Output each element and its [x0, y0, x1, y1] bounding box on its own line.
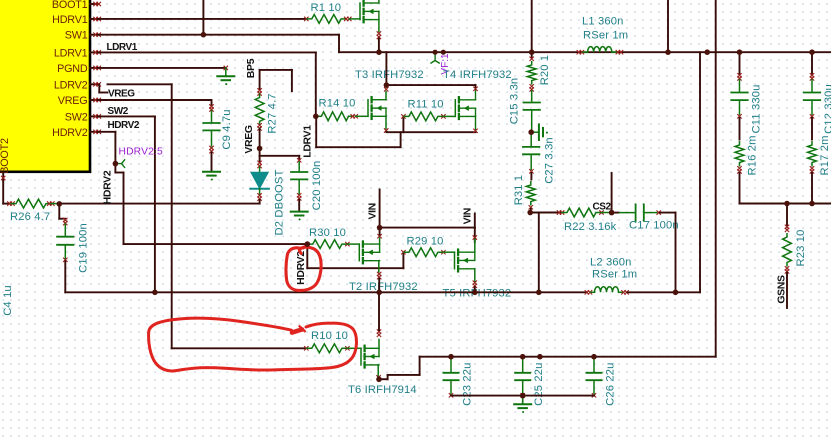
- inductor L1 360n: [577, 47, 624, 55]
- resistor R10 10: [304, 344, 361, 353]
- IC pin stub LDRV1: [90, 50, 101, 54]
- svg-text:CS2: CS2: [593, 202, 612, 213]
- junction VIN node: [377, 225, 383, 231]
- wire HDRV2 down-jog: [115, 164, 307, 245]
- node bottom sense rail: [740, 203, 831, 205]
- wire top feed x531: [531, 0, 533, 52]
- wire LDRV2 long net: [108, 84, 306, 348]
- T5 drain pin: [474, 239, 476, 252]
- IC pin stub HDRV2: [90, 130, 101, 134]
- svg-text:R14 10: R14 10: [319, 98, 356, 110]
- wire VREG pin to C9: [98, 100, 212, 105]
- label C11 330u (vertical): [751, 85, 763, 134]
- wire C19 bottom to SW2 rail: [65, 261, 155, 292]
- IC pin name LDRV2: [54, 79, 88, 91]
- label LDRV1 (net, vertical): [302, 125, 314, 158]
- capacitor C20 100n: [291, 158, 307, 201]
- svg-text:R23 10: R23 10: [795, 230, 807, 267]
- T5 drain pin tick: [473, 235, 477, 239]
- wire LDRV2 label jog: [99, 84, 107, 92]
- wire R27 to VREG node: [259, 128, 261, 148]
- label C25 22u (vertical): [533, 363, 545, 406]
- svg-text:BP5: BP5: [245, 58, 257, 78]
- label C12 330u (vertical): [823, 84, 831, 134]
- T4 drain pin tick: [473, 87, 477, 100]
- ground below C25: [514, 404, 531, 413]
- junction R23 top: [784, 201, 790, 207]
- transistor T5 IRFH7932: [455, 250, 475, 272]
- IC pin name PGND: [57, 63, 88, 75]
- label R22 3.16k: [564, 221, 617, 233]
- svg-text:R27 4.7: R27 4.7: [267, 93, 279, 133]
- IC pin stub HDRV1: [90, 17, 101, 21]
- wire R30 node to R29 loop: [307, 244, 403, 268]
- capacitor C19 100n: [57, 218, 73, 262]
- wire R31 to CS2 node: [530, 209, 532, 213]
- svg-text:C4 1u: C4 1u: [2, 285, 14, 316]
- label GSNS (vertical): [776, 275, 788, 304]
- wire source rail to LDRV1 loop: [316, 118, 400, 148]
- T5 source pin: [473, 269, 477, 288]
- wire vout sense vertical x700: [699, 52, 701, 292]
- svg-text:T2 IRFH7932: T2 IRFH7932: [349, 281, 418, 293]
- resistor R27 4.7 (vertical): [255, 88, 264, 130]
- svg-text:L1 360n: L1 360n: [582, 16, 624, 28]
- svg-text:HDRV2:5: HDRV2:5: [119, 146, 163, 157]
- wire VIN stub 2: [474, 214, 476, 228]
- label R10 10: [311, 330, 348, 342]
- svg-text:LDRV2: LDRV2: [54, 79, 88, 91]
- node source rail y132: [386, 131, 475, 133]
- label L2 360n: [590, 257, 632, 269]
- ground at PGND: [217, 68, 234, 85]
- label T2 IRFH7932: [349, 281, 418, 293]
- wire C9 to ground: [211, 153, 213, 171]
- wire SW1 from IC: [98, 35, 340, 53]
- transistor T2 IRFH7932: [359, 242, 379, 264]
- svg-text:R22 3.16k: R22 3.16k: [564, 221, 617, 233]
- label VF:1 (purple, vertical): [440, 53, 451, 75]
- T2 drain pin: [377, 234, 381, 244]
- junction VREG node: [257, 146, 263, 152]
- svg-text:C12 330u: C12 330u: [823, 84, 831, 134]
- svg-text:R26 4.7: R26 4.7: [10, 211, 50, 223]
- label VIN (vertical #2): [462, 208, 474, 224]
- svg-text:RSer 1m: RSer 1m: [583, 30, 628, 42]
- label R17 2m (vertical): [819, 135, 831, 175]
- node cap bottom rail: [451, 395, 594, 397]
- label CS2 (net): [593, 202, 612, 213]
- IC pin stub SW2: [90, 114, 101, 118]
- probe marker HDRV2:5: [115, 160, 124, 168]
- junction SW1/top vertical: [201, 32, 207, 38]
- svg-text:T3 IRFH7932: T3 IRFH7932: [355, 69, 424, 81]
- junction C26 top: [591, 354, 597, 360]
- label R14 10: [319, 98, 356, 110]
- wire T1 source to SW1 rail: [378, 39, 380, 53]
- svg-text:HDRV2: HDRV2: [108, 120, 140, 131]
- label R29 10: [407, 236, 444, 248]
- svg-text:HDRV2: HDRV2: [102, 170, 114, 204]
- svg-text:SW2: SW2: [65, 111, 88, 123]
- label T5 IRFH7932: [443, 288, 512, 300]
- wire C17 node to vout vertical: [676, 291, 701, 293]
- junction R17 bottom: [809, 201, 815, 207]
- wire T2 drain to VIN node: [379, 228, 381, 235]
- svg-text:HDRV1: HDRV1: [52, 14, 88, 26]
- T6 source pin: [376, 365, 380, 380]
- wire PGND from IC: [98, 66, 229, 70]
- capacitor C15 3.3n: [524, 91, 540, 131]
- wire T3 drain to mid node: [385, 52, 387, 85]
- T3 drain pin: [384, 87, 388, 100]
- wire HDRV1 to R1: [98, 18, 306, 20]
- junction mid drain node: [384, 82, 390, 88]
- junction R31 bottom: [527, 210, 533, 216]
- label L2 RSer 1m: [592, 269, 637, 281]
- svg-text:R29 10: R29 10: [407, 236, 444, 248]
- junction CS2 vertical on rail: [536, 290, 542, 296]
- label VREG (vertical): [243, 125, 255, 154]
- label C4 1u (vertical): [2, 285, 14, 316]
- resistor R26 4.7: [7, 199, 59, 208]
- wire T5 source to rail: [474, 287, 476, 292]
- svg-text:RSer 1m: RSer 1m: [592, 269, 637, 281]
- IC pin name LDRV1: [54, 47, 88, 59]
- junction C25 top: [520, 354, 526, 360]
- svg-text:VREG: VREG: [243, 125, 255, 154]
- junction R14 left / LDRV1: [313, 114, 319, 120]
- label R26 4.7: [10, 211, 50, 223]
- junction T2/T6 node: [376, 290, 382, 296]
- annotation red lasso around R10 wire: [149, 318, 357, 371]
- capacitor C12 330u + resistor R17 2m chain: [804, 52, 820, 203]
- T3 source pin: [384, 116, 388, 132]
- svg-text:T4 IRFH7932: T4 IRFH7932: [443, 69, 512, 81]
- svg-text:SW2: SW2: [108, 106, 129, 117]
- inductor L2 360n: [585, 287, 629, 295]
- svg-text:R30 10: R30 10: [309, 227, 346, 239]
- svg-text:PGND: PGND: [57, 63, 88, 75]
- junction T1 source on rail: [376, 49, 382, 55]
- label HDRV2:5 (purple): [119, 146, 163, 157]
- junction C23 top: [448, 354, 454, 360]
- wire C27 to R31: [530, 173, 532, 180]
- svg-text:C26 22u: C26 22u: [605, 363, 617, 406]
- capacitor C23 22u: [443, 357, 458, 398]
- IC pin name HDRV1: [52, 14, 88, 26]
- IC pin stub SW1: [90, 33, 101, 37]
- wire C17 to output node: [660, 213, 676, 293]
- label L1 RSer 1m: [583, 30, 628, 42]
- resistor R31 1 (vertical): [526, 181, 535, 210]
- junction T5 source on rail: [472, 290, 478, 296]
- wire C19 top jog: [59, 204, 65, 219]
- label R1 10: [311, 2, 342, 14]
- wire VREG node to C20: [260, 156, 300, 159]
- transistor T3 IRFH7932: [368, 97, 386, 119]
- label D2 DBOOST (vertical): [274, 169, 286, 235]
- junction x668: [665, 49, 671, 55]
- svg-text:SW1: SW1: [65, 30, 88, 42]
- label T3 IRFH7932: [355, 69, 424, 81]
- label C26 22u (vertical): [605, 363, 617, 406]
- svg-text:R17 2m: R17 2m: [819, 135, 831, 175]
- annotation red circle around HDRV2: [286, 245, 321, 291]
- svg-text:C25 22u: C25 22u: [533, 363, 545, 406]
- svg-text:R31 1: R31 1: [513, 175, 525, 206]
- IC pin name SW2: [65, 111, 88, 123]
- junction R20 top: [529, 49, 535, 55]
- label R30 10: [309, 227, 346, 239]
- node SW1 rail (top): [339, 51, 831, 53]
- svg-text:GSNS: GSNS: [776, 275, 788, 304]
- wire T6 drain to rail: [378, 292, 380, 330]
- junction C25 bottom: [520, 393, 526, 399]
- svg-text:VREG: VREG: [108, 89, 135, 100]
- capacitor C26 22u: [586, 357, 601, 398]
- svg-text:R10 10: R10 10: [311, 330, 348, 342]
- transistor T4 IRFH7932: [455, 97, 475, 119]
- junction VF probe dot A: [433, 50, 438, 55]
- junction SW2 rail: [152, 290, 158, 296]
- label C20 100n (vertical): [311, 161, 323, 211]
- wire top feed x668: [667, 0, 669, 52]
- wire VIN stub: [379, 190, 381, 228]
- junction extra on cap rail: [537, 354, 543, 360]
- svg-text:C17 100n: C17 100n: [629, 220, 679, 232]
- capacitor C25 22u: [515, 357, 530, 398]
- ground marker right of mid node: [531, 124, 548, 140]
- resistor R20 1 (vertical): [527, 52, 536, 91]
- label HDRV2 (net, horizontal): [108, 120, 140, 131]
- label L1 360n: [582, 16, 624, 28]
- IC pin stub BOOT2: [1, 172, 5, 181]
- label T6 IRFH7914: [348, 384, 417, 396]
- wire BOOT2 to R26: [3, 181, 9, 204]
- junction R30 left: [305, 241, 311, 247]
- wire T6 source to cap rail: [378, 357, 419, 380]
- svg-text:T6 IRFH7914: T6 IRFH7914: [348, 384, 417, 396]
- label SW2 (net): [108, 106, 129, 117]
- resistor R29 10: [401, 248, 454, 257]
- svg-text:C20 100n: C20 100n: [311, 161, 323, 211]
- svg-text:C9 4.7u: C9 4.7u: [221, 109, 233, 149]
- wire vertical from top at x203: [202, 0, 204, 35]
- transistor T6 IRFH7914: [361, 346, 379, 368]
- label T4 IRFH7932: [443, 69, 512, 81]
- wire CS2 vertical: [538, 213, 540, 293]
- ground below C20: [291, 212, 308, 221]
- svg-text:C23 22u: C23 22u: [462, 363, 474, 406]
- capacitor C27 3.3n: [523, 132, 539, 173]
- IC pin stub LDRV2: [90, 82, 101, 86]
- IC pin name VREG: [58, 95, 88, 107]
- IC pin name BOOT1: [52, 0, 88, 11]
- capacitor C17 100n: [612, 204, 661, 220]
- junction HDRV2 probe dot: [113, 161, 119, 167]
- label HDRV2 (vertical #1): [102, 170, 114, 204]
- wire D2 cathode to VREG-R26 rail: [59, 200, 259, 204]
- node CS2 wire: [530, 212, 560, 214]
- resistor R30 10: [307, 240, 359, 249]
- svg-text:HDRV2: HDRV2: [295, 251, 307, 285]
- svg-text:LDRV1: LDRV1: [302, 125, 314, 158]
- label C17 100n: [629, 220, 679, 232]
- IC pin stub PGND: [90, 66, 101, 70]
- wire GSNS stub: [786, 273, 788, 308]
- svg-text:D2 DBOOST: D2 DBOOST: [274, 169, 286, 235]
- label LDRV1 (net, horizontal): [107, 42, 138, 53]
- label VREG (net, horizontal): [108, 89, 135, 100]
- wire SW2 from IC: [98, 116, 155, 292]
- wire top-to-caps vertical x716: [715, 0, 717, 357]
- svg-text:BOOT1: BOOT1: [52, 0, 88, 11]
- wire R11 left to source rail: [402, 119, 404, 133]
- label R20 1 (vertical): [539, 55, 551, 86]
- capacitor C9 4.7u: [203, 104, 219, 153]
- IC pin stub VREG: [90, 98, 101, 102]
- junction C11 top: [737, 49, 743, 55]
- T2 source pin: [377, 261, 381, 280]
- svg-text:LDRV1: LDRV1: [107, 42, 138, 53]
- T1 source pin ticks: [377, 31, 381, 39]
- junction C12 top: [809, 49, 815, 55]
- junction x707: [704, 49, 710, 55]
- svg-text:C15 3.3n: C15 3.3n: [509, 78, 521, 125]
- IC pin name BOOT2 (left edge, vertical): [0, 138, 11, 174]
- wire HDRV2 from IC: [98, 132, 116, 164]
- node cap rail y356: [420, 356, 716, 358]
- junction C15/C27 mid: [528, 129, 534, 135]
- resistor R1 10: [304, 15, 360, 24]
- junction R26/C19: [57, 201, 63, 207]
- resistor R22 3.16k: [557, 208, 612, 217]
- junction T6 source: [376, 377, 382, 383]
- label C27 3.3n (vertical): [544, 137, 556, 184]
- wire mid node to T4 drain: [386, 85, 475, 87]
- label R27 4.7 (vertical): [267, 93, 279, 133]
- transistor T1 (top, IRFH7932): [360, 0, 379, 32]
- IC U1 (controller) body: [0, 0, 90, 172]
- node rail y292: [155, 291, 587, 293]
- label R23 10 (vertical): [795, 230, 807, 267]
- IC pin stub BOOT1: [90, 2, 101, 6]
- IC pin name SW1: [65, 30, 88, 42]
- svg-text:R20 1: R20 1: [539, 55, 551, 86]
- resistor R14 10: [316, 112, 368, 121]
- svg-text:C19 100n: C19 100n: [78, 223, 90, 273]
- wire T2 source to rail: [378, 279, 380, 293]
- label C15 3.3n (vertical): [509, 78, 521, 125]
- label VIN (vertical #1): [367, 203, 379, 219]
- svg-text:L2 360n: L2 360n: [590, 257, 632, 269]
- svg-text:LDRV1: LDRV1: [54, 47, 88, 59]
- T4 source pin: [473, 116, 477, 133]
- IC pin name HDRV2: [52, 127, 88, 139]
- junction C17 node: [673, 290, 679, 296]
- label C23 22u (vertical): [462, 363, 474, 406]
- junction CS2 node: [609, 210, 615, 216]
- wire VIN node to T5 drain: [380, 228, 475, 242]
- wire LDRV1 from IC: [98, 52, 316, 116]
- resistor R23 10 (vertical): [783, 204, 792, 274]
- ground below C9: [203, 172, 220, 181]
- label C9 4.7u (vertical): [221, 109, 233, 149]
- label R11 10: [408, 99, 444, 111]
- label R16 2m (vertical): [747, 135, 759, 175]
- wire C20 to ground: [298, 200, 300, 211]
- svg-text:C11 330u: C11 330u: [751, 85, 763, 134]
- label HDRV2 (vertical #2, circled): [295, 251, 307, 285]
- wire CS2 stub up: [611, 173, 613, 213]
- svg-text:R11 10: R11 10: [408, 99, 444, 111]
- wire VREG node down to D2: [259, 148, 261, 162]
- capacitor C11 330u + resistor R16 2m chain: [731, 52, 747, 203]
- T6 drain pin: [377, 329, 381, 348]
- svg-text:VREG: VREG: [58, 95, 88, 107]
- svg-text:R1 10: R1 10: [311, 2, 342, 14]
- probe marker VF1: [431, 52, 439, 63]
- wire L2 to C17 node: [628, 291, 676, 293]
- svg-text:HDRV2: HDRV2: [52, 127, 88, 139]
- diode D2 DBOOST: [250, 161, 269, 201]
- junction VF probe dot B: [441, 50, 446, 55]
- wire C25 ground stub: [522, 396, 524, 404]
- resistor R11 10: [401, 112, 455, 121]
- wire BP5 hook: [260, 70, 292, 91]
- svg-text:BOOT2: BOOT2: [0, 138, 11, 174]
- svg-text:VIN: VIN: [462, 208, 474, 224]
- svg-text:R16 2m: R16 2m: [747, 135, 759, 175]
- label R31 1 (vertical): [513, 175, 525, 206]
- svg-text:C27 3.3n: C27 3.3n: [544, 137, 556, 184]
- svg-text:VIN: VIN: [367, 203, 379, 219]
- label C19 100n (vertical): [78, 223, 90, 273]
- label BP5 (vertical): [245, 58, 257, 78]
